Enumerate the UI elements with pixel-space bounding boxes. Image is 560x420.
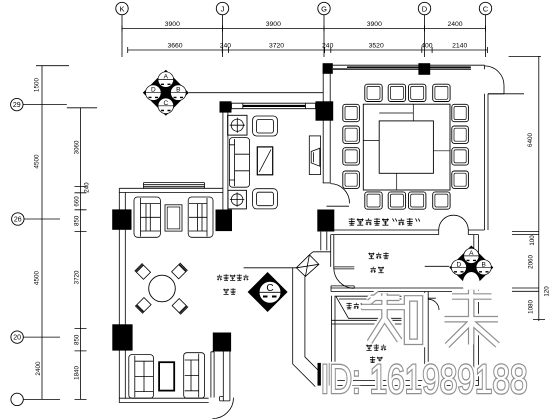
chair row bottom 4 (433, 192, 450, 209)
svg-text:3520: 3520 (369, 43, 384, 50)
grid bubble C (479, 2, 491, 14)
wall left room west (119, 188, 125, 402)
left inner dim top tick (67, 107, 97, 109)
grid bubble 29 (11, 98, 23, 110)
column conference top-mid (418, 63, 430, 75)
wall conference south (331, 230, 485, 235)
double door arcs conference south (439, 215, 469, 230)
svg-text:C: C (266, 283, 273, 294)
chair col left 4 (343, 171, 360, 188)
svg-text:120: 120 (544, 286, 551, 297)
sofa 3-seat sitting room (229, 138, 249, 188)
room label business reception hall (349, 218, 355, 225)
wall private room south (331, 286, 474, 292)
elevation marker C left room (248, 272, 288, 312)
svg-text:2060: 2060 (528, 255, 535, 269)
svg-text:A: A (469, 250, 474, 257)
grid bubble J (216, 2, 228, 14)
chamfer wall outer (293, 268, 316, 387)
column conference top-left (323, 63, 333, 74)
coffee table sitting room (257, 147, 272, 175)
wall left room north (119, 188, 223, 192)
svg-text:240: 240 (322, 43, 334, 50)
wall corridor west of private room (321, 232, 327, 251)
svg-text:D: D (422, 4, 428, 13)
grid line bottom (23, 398, 60, 400)
elevation marker ABCD top-left (143, 70, 189, 116)
svg-text:2400: 2400 (35, 361, 42, 376)
grid line 20 (23, 336, 60, 338)
round dining table (149, 275, 176, 302)
wall grid D lower (425, 292, 429, 381)
column left room west lower (112, 324, 132, 350)
svg-text:3900: 3900 (367, 21, 382, 28)
right dimension line (538, 56, 540, 321)
watermark ID number (321, 356, 528, 402)
svg-text:3900: 3900 (165, 21, 180, 28)
door washroom arc (428, 298, 439, 310)
wall conference top inner stub (333, 65, 485, 69)
conference table (363, 104, 450, 190)
wall pointer line right marker (425, 265, 450, 267)
grid bubble empty (11, 393, 23, 405)
chair col right 2 (452, 126, 469, 143)
end table north with lamp (228, 115, 247, 135)
top dim row 2 ticks (128, 47, 488, 53)
column sitting NW (220, 101, 232, 112)
door left room arc (213, 398, 234, 419)
svg-text:B: B (176, 87, 180, 94)
wall building south (334, 381, 478, 386)
room label banquet area line2 (223, 289, 229, 295)
dining chair SW (135, 297, 151, 313)
column sitting SW (216, 210, 233, 232)
end table south with lamp (228, 190, 247, 209)
door private room leaf (334, 267, 355, 269)
wall conference east (485, 94, 489, 230)
pointer line top-left marker (189, 92, 323, 94)
svg-text:240: 240 (220, 43, 232, 50)
svg-text:4500: 4500 (34, 154, 41, 169)
chair col left 2 (343, 126, 360, 143)
sofa SE left room (184, 353, 205, 399)
window sitting room top (232, 103, 316, 109)
sofa west left room (134, 197, 160, 237)
dining chair NW (135, 263, 151, 279)
svg-text:K: K (119, 4, 124, 13)
left outer dimension line (41, 66, 43, 400)
svg-text:3720: 3720 (269, 43, 284, 50)
top dim row 1 ticks (122, 26, 486, 32)
armchair north sitting room (253, 116, 278, 136)
svg-text:ID: 161989188: ID: 161989188 (321, 356, 528, 402)
grid line stubs K J G D C (122, 15, 486, 57)
wall east of left room (220, 352, 230, 401)
chair row top 4 (433, 84, 450, 101)
top dimension row 1 line (122, 28, 486, 30)
chair row bottom 3 (409, 192, 426, 209)
grid bubble G (318, 2, 330, 14)
elevation marker ADB right (449, 246, 493, 297)
room label AC plant room (346, 303, 351, 309)
right dim extension line (488, 93, 524, 95)
svg-text:1080: 1080 (528, 300, 535, 314)
chair col left 3 (343, 148, 360, 165)
chair col right 3 (452, 148, 469, 165)
wall left room south (119, 398, 208, 402)
wall conference top outer (331, 64, 485, 66)
dining chair SE (172, 298, 188, 314)
chair row bottom 2 (388, 192, 405, 209)
grid bubble 26 (12, 213, 24, 225)
column sitting SE (317, 210, 334, 232)
grid bubble D (418, 2, 430, 14)
dining chair NE (171, 263, 187, 279)
chair row top 3 (409, 84, 426, 101)
top dimension row 2 line (128, 49, 488, 51)
svg-text:1840: 1840 (73, 366, 80, 380)
chair col right 4 (452, 171, 469, 188)
door conference west arc (330, 184, 349, 204)
svg-text:2400: 2400 (447, 21, 462, 28)
svg-text:240: 240 (83, 182, 90, 193)
left inner dimension line (80, 108, 82, 400)
column left room east lower (213, 333, 231, 352)
column washroom west (318, 363, 335, 386)
grid line 26 (24, 218, 60, 220)
right dim top tick (509, 55, 541, 57)
wall closet south (332, 320, 425, 324)
window band conference top (347, 66, 471, 68)
room label private room line1 (368, 253, 374, 259)
sofa east left room (188, 197, 213, 237)
wall sitting room west (223, 113, 228, 210)
grid bubble K (116, 2, 128, 14)
grid bubble 20 (11, 331, 23, 343)
svg-text:26: 26 (14, 217, 22, 224)
left inner dim ticks (75, 187, 87, 400)
tv cabinet (309, 136, 320, 175)
wall lower east (474, 235, 479, 386)
watermark zhimo logo (362, 290, 499, 346)
svg-text:G: G (321, 4, 327, 13)
svg-text:660: 660 (73, 196, 80, 207)
svg-text:D: D (457, 261, 462, 268)
svg-text:3720: 3720 (73, 270, 80, 284)
svg-text:2140: 2140 (452, 43, 467, 50)
room label private room line2 (370, 267, 375, 273)
closet counter (336, 296, 421, 318)
svg-text:100: 100 (529, 235, 536, 246)
svg-text:C: C (163, 100, 168, 107)
svg-text:B: B (482, 261, 486, 268)
svg-text:J: J (221, 4, 225, 13)
svg-text:850: 850 (73, 215, 80, 226)
window left room north (144, 183, 205, 188)
door private room arc (334, 268, 354, 288)
door conference west leaf stub (323, 182, 331, 184)
door left room leaf (211, 352, 214, 398)
svg-text:29: 29 (13, 102, 21, 109)
chair row top 2 (388, 84, 405, 101)
room label washroom line2 (370, 356, 375, 362)
svg-text:1500: 1500 (34, 77, 41, 92)
svg-text:400: 400 (421, 43, 433, 50)
column left room west upper (112, 209, 131, 229)
curved wall top-right entry (485, 66, 505, 94)
corner post diamond (296, 255, 319, 277)
chair row top 1 (365, 84, 382, 101)
right dim ticks (512, 232, 545, 320)
svg-text:A: A (164, 74, 169, 81)
svg-text:850: 850 (73, 334, 80, 345)
wall private room west upper (331, 235, 334, 267)
svg-text:C: C (483, 4, 489, 13)
wall conference west (323, 69, 330, 183)
svg-text:3900: 3900 (266, 21, 281, 28)
chair col left 1 (343, 104, 360, 121)
coffee table lower left room (159, 362, 174, 390)
armchair south sitting room (253, 189, 278, 209)
chair row bottom 1 (365, 192, 382, 209)
double door jambs conference south (439, 230, 469, 235)
sofa SW left room (129, 355, 154, 399)
svg-text:20: 20 (13, 335, 21, 342)
coffee table upper left room (165, 205, 182, 231)
svg-text:3660: 3660 (167, 43, 182, 50)
wall pointer line C marker (244, 267, 297, 269)
chamfer wall inner (305, 276, 320, 371)
svg-text:4500: 4500 (34, 270, 41, 285)
wall washroom west (332, 296, 336, 363)
svg-text:D: D (151, 87, 156, 94)
wall jog to corner post (309, 252, 330, 255)
room label washroom line1 (366, 345, 372, 351)
svg-text:3060: 3060 (73, 140, 80, 154)
chair col right 1 (452, 104, 469, 121)
left outer dim top tick (36, 65, 69, 67)
column sitting NE (316, 101, 334, 120)
svg-text:6400: 6400 (527, 132, 534, 147)
grid line 29 (23, 104, 67, 106)
room label banquet area line1 (217, 275, 222, 281)
door conference west sill (327, 205, 350, 207)
